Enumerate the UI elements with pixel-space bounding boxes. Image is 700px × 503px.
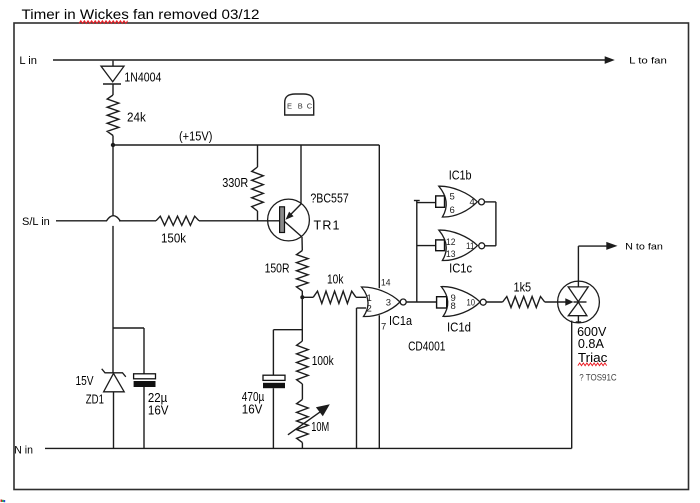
svg-text:B: B	[298, 102, 303, 111]
svg-text:CD4001: CD4001	[408, 340, 445, 354]
svg-text:10: 10	[467, 298, 476, 309]
svg-text:5: 5	[450, 192, 455, 203]
svg-text:12: 12	[446, 237, 456, 248]
svg-text:330R: 330R	[222, 176, 248, 190]
svg-text:7: 7	[381, 321, 386, 332]
svg-text:? TOS91C: ? TOS91C	[579, 373, 617, 383]
svg-text:16V: 16V	[148, 404, 169, 418]
svg-text:15V: 15V	[76, 374, 95, 388]
svg-text:N in: N in	[14, 444, 33, 456]
svg-text:Timer in Wickes fan removed 03: Timer in Wickes fan removed 03/12	[22, 7, 260, 23]
svg-text:C: C	[307, 102, 313, 111]
svg-text:10M: 10M	[311, 420, 329, 434]
svg-text:L to fan: L to fan	[629, 56, 667, 67]
svg-text:16V: 16V	[242, 402, 263, 416]
svg-text:(+15V): (+15V)	[179, 129, 212, 143]
svg-text:100k: 100k	[312, 354, 335, 368]
svg-text:ZD1: ZD1	[86, 393, 104, 407]
svg-text:IC1b: IC1b	[449, 169, 472, 183]
svg-text:8: 8	[451, 301, 456, 312]
svg-text:150k: 150k	[161, 231, 187, 245]
svg-text:13: 13	[446, 249, 456, 260]
svg-text:6: 6	[450, 205, 455, 216]
svg-text:2: 2	[367, 304, 372, 315]
svg-text:24k: 24k	[127, 111, 146, 125]
svg-text:N to fan: N to fan	[625, 241, 663, 252]
svg-text:E: E	[287, 102, 292, 111]
svg-text:150R: 150R	[265, 262, 290, 276]
svg-text:11: 11	[466, 241, 475, 252]
svg-text:10k: 10k	[327, 273, 344, 287]
svg-text:3: 3	[386, 298, 391, 309]
svg-text:1k5: 1k5	[514, 280, 532, 294]
svg-text:TR1: TR1	[314, 218, 340, 232]
svg-text:S/L in: S/L in	[22, 216, 50, 228]
svg-text:Triac: Triac	[578, 351, 608, 365]
svg-text:14: 14	[381, 277, 391, 288]
svg-text:1N4004: 1N4004	[124, 70, 161, 84]
svg-text:0.8A: 0.8A	[578, 337, 605, 351]
svg-text:?BC557: ?BC557	[310, 192, 348, 206]
svg-text:IC1a: IC1a	[389, 314, 412, 328]
svg-text:IC1d: IC1d	[447, 321, 471, 335]
svg-text:4: 4	[470, 197, 475, 208]
svg-text:L in: L in	[19, 55, 37, 67]
svg-text:IC1c: IC1c	[449, 261, 472, 275]
